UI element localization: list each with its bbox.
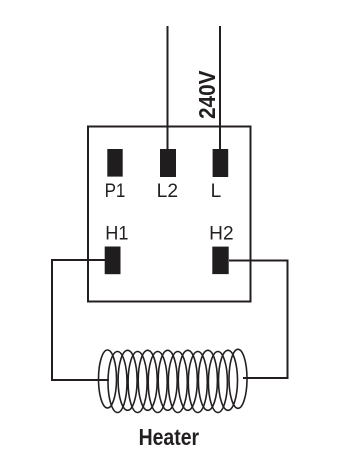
heater coil loop 1 (99, 350, 117, 408)
svg-text:L: L (211, 181, 222, 202)
svg-text:H2: H2 (209, 224, 233, 245)
heater coil loop 2 (108, 352, 127, 413)
terminal H2 (212, 247, 228, 275)
heater coil loop 10 (188, 352, 207, 413)
heater coil loop 9 (178, 350, 197, 410)
heater coil loop 12 (208, 352, 227, 413)
heater coil loop 4 (128, 352, 147, 413)
terminal P1 (107, 149, 122, 177)
terminal box outline (88, 127, 251, 302)
svg-text:H1: H1 (105, 224, 128, 245)
terminal L (213, 149, 229, 177)
wire: L supply line from top (219, 26, 221, 150)
heater coil loop 13 (219, 350, 238, 410)
heater coil loop 11 (198, 350, 217, 410)
wire: L2 supply line from top (167, 26, 169, 150)
heater coil loop 3 (118, 350, 137, 410)
terminal L2 (160, 149, 176, 177)
heater coil loop 7 (158, 350, 177, 410)
svg-text:P1: P1 (105, 181, 126, 202)
svg-text:Heater: Heater (139, 424, 200, 450)
svg-text:L2: L2 (157, 181, 178, 202)
heater coil loop 5 (138, 350, 157, 410)
wire: H1 to heater (left run) (52, 260, 109, 380)
heater coil loop 8 (168, 352, 187, 413)
svg-text:240V: 240V (194, 70, 220, 119)
heater coil loop 6 (148, 352, 167, 413)
wire: H2 to heater (right run) (229, 261, 288, 379)
heater coil loop 14 (229, 349, 247, 408)
terminal H1 (105, 247, 121, 275)
